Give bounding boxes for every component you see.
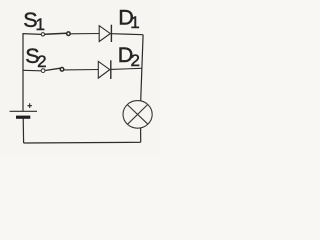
wire right vertical [141, 35, 143, 101]
wire top-left to S1 [23, 34, 41, 111]
svg-text:2: 2 [37, 52, 46, 71]
wire bottom [24, 141, 141, 144]
wire S1 to D1 [71, 33, 100, 35]
wire S2 to D2 [64, 69, 98, 71]
battery positive plate [10, 110, 37, 112]
wire D1 to top-right corner [111, 34, 143, 35]
diode D2 [98, 60, 111, 79]
switch S2 [41, 68, 64, 73]
wire left vertical to S2 branch [23, 69, 41, 72]
svg-text:2: 2 [131, 51, 140, 70]
wire D2 to right vertical [111, 68, 142, 69]
svg-text:1: 1 [36, 15, 45, 34]
lamp [123, 101, 152, 129]
svg-text:1: 1 [130, 13, 139, 32]
battery plus sign [27, 103, 32, 108]
wire lamp bottom [140, 128, 142, 142]
battery negative plate [16, 116, 30, 119]
switch S1 [41, 32, 70, 36]
diode D1 [99, 25, 111, 42]
wire left lower vertical [22, 118, 24, 143]
